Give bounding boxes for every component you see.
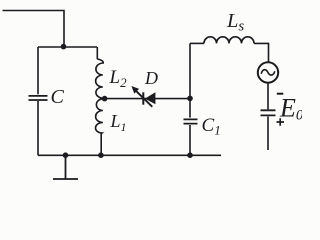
AC source U1 [258, 62, 278, 82]
wire right loop left vertical [189, 43, 191, 117]
wire left branch lower [37, 101, 39, 155]
node dot ground junction [63, 152, 69, 158]
capacitor C1 [184, 119, 198, 123]
capacitor C [29, 96, 48, 100]
wire left branch upper [37, 47, 39, 94]
inductor L1 [95, 99, 104, 135]
wire C1 bottom [189, 125, 191, 155]
wire upper horizontal [38, 46, 97, 48]
node dot top junction [61, 44, 67, 50]
wire tap to C1 node [104, 98, 190, 100]
ground [53, 155, 78, 179]
node dot coil bottom [98, 152, 104, 158]
diode D [142, 92, 155, 105]
source E0 plates [261, 110, 276, 115]
wire top-right right segment [254, 43, 269, 62]
inductor L2 [96, 59, 105, 99]
node dot C1 bottom [187, 152, 193, 158]
wire top-right left segment [190, 42, 204, 44]
plus sign [277, 118, 285, 126]
wire coil branch top [96, 47, 98, 59]
wire top-left horizontal [3, 11, 65, 47]
wire coil bottom [100, 134, 102, 156]
inductor Ls [204, 37, 254, 44]
wire E0 bottom [267, 117, 269, 151]
wire bottom horizontal [38, 154, 221, 156]
wire source to E0 [267, 83, 269, 109]
svg-text:C: C [51, 86, 65, 108]
variable arrow through D [131, 86, 152, 107]
node dot C1 top [187, 96, 193, 102]
node dot coil tap [102, 96, 108, 102]
minus sign [277, 93, 284, 95]
sine wave inside source [261, 70, 275, 75]
svg-text:D: D [144, 68, 158, 88]
